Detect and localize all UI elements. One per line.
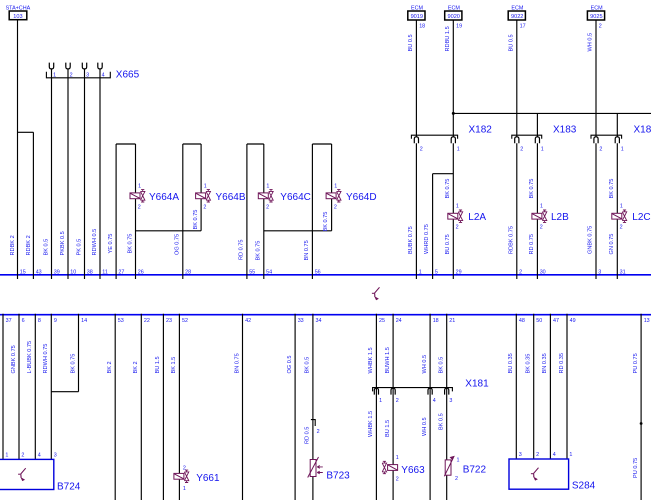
svg-text:39: 39 bbox=[54, 269, 60, 275]
svg-text:18: 18 bbox=[419, 23, 425, 29]
glow plug L2C bbox=[612, 213, 622, 219]
svg-text:WH 0.5: WH 0.5 bbox=[422, 417, 428, 436]
svg-text:9019: 9019 bbox=[411, 14, 423, 20]
svg-text:2: 2 bbox=[317, 429, 320, 435]
svg-text:PK 0.5: PK 0.5 bbox=[76, 239, 82, 256]
wire RDBK 0.75 from X18B pin 2 to frame bbox=[516, 143, 518, 279]
device B724 box bbox=[0, 459, 54, 489]
svg-text:17: 17 bbox=[520, 23, 526, 29]
svg-text:BK 2: BK 2 bbox=[107, 361, 113, 373]
connector X181 terminal pin 2 bbox=[391, 388, 395, 394]
svg-text:1: 1 bbox=[457, 457, 460, 463]
wire WH 0.5 track 18 through X181 bbox=[429, 314, 431, 500]
wire BU 0.5 ECM 9022 to X183 pin 2 bbox=[516, 20, 518, 137]
svg-text:2: 2 bbox=[183, 465, 186, 471]
svg-text:1: 1 bbox=[456, 204, 459, 210]
svg-text:L2A: L2A bbox=[468, 212, 486, 223]
wire to B724 pin 3 bbox=[50, 314, 52, 460]
svg-text:Y663: Y663 bbox=[401, 465, 425, 476]
wire right leg of Y664B bbox=[200, 144, 202, 231]
svg-text:2: 2 bbox=[138, 205, 141, 211]
svg-text:BK 0.75: BK 0.75 bbox=[256, 241, 262, 261]
svg-text:11: 11 bbox=[102, 269, 108, 275]
svg-text:BU 0.35: BU 0.35 bbox=[508, 353, 514, 373]
glow plug L2A bbox=[448, 213, 458, 219]
svg-text:15: 15 bbox=[20, 269, 26, 275]
connector X183 terminal pin 2 bbox=[515, 137, 519, 143]
svg-text:30: 30 bbox=[540, 269, 546, 275]
svg-text:1: 1 bbox=[540, 204, 543, 210]
svg-text:RDBK 2: RDBK 2 bbox=[26, 235, 32, 255]
wire BK 0.5 from X665 bbox=[51, 69, 53, 279]
wire BU 0.5 ECM 9019 to X182 pin 2 bbox=[415, 20, 417, 137]
wire RDBU 1.5 ECM 9020 down to junction bbox=[452, 20, 454, 137]
svg-text:2: 2 bbox=[540, 225, 543, 231]
svg-text:6: 6 bbox=[22, 318, 25, 324]
svg-text:X184: X184 bbox=[634, 124, 651, 135]
svg-text:Y664D: Y664D bbox=[346, 192, 377, 203]
svg-text:14: 14 bbox=[81, 318, 87, 324]
wire supply drop to X184 pin 1 bbox=[616, 113, 618, 136]
svg-text:BU 0.75: BU 0.75 bbox=[445, 234, 451, 254]
svg-text:1: 1 bbox=[266, 183, 269, 189]
svg-text:OG 0.5: OG 0.5 bbox=[287, 355, 293, 373]
svg-text:BK 0.75: BK 0.75 bbox=[323, 212, 329, 232]
svg-text:53: 53 bbox=[118, 318, 124, 324]
device S284 switch glyph bbox=[534, 468, 539, 478]
svg-text:55: 55 bbox=[249, 269, 255, 275]
wire BK 0.75 bus Y664A-Y664B bbox=[136, 230, 202, 232]
wire BU 1.5 track 23 bbox=[162, 314, 164, 500]
svg-text:2: 2 bbox=[396, 477, 399, 483]
svg-text:2: 2 bbox=[456, 225, 459, 231]
svg-text:21: 21 bbox=[449, 318, 455, 324]
connector X181 bracket bbox=[373, 388, 453, 392]
device S284 box bbox=[509, 459, 569, 489]
svg-text:3: 3 bbox=[54, 453, 57, 459]
valve Y663 bbox=[388, 465, 398, 471]
wire right leg of Y664D bbox=[331, 144, 333, 231]
svg-text:24: 24 bbox=[396, 318, 402, 324]
svg-text:BK 0.75: BK 0.75 bbox=[193, 210, 199, 230]
svg-text:WH 0.5: WH 0.5 bbox=[422, 355, 428, 374]
connector X181 terminal pin 3 bbox=[445, 388, 449, 394]
svg-text:1: 1 bbox=[396, 455, 399, 461]
cross-reference switch glyph between frames bbox=[375, 287, 380, 297]
svg-text:2: 2 bbox=[620, 225, 623, 231]
svg-text:RDBK 0.75: RDBK 0.75 bbox=[508, 226, 514, 254]
svg-text:BK 1.5: BK 1.5 bbox=[171, 357, 177, 374]
svg-text:B723: B723 bbox=[326, 470, 350, 481]
wire BK 1.5 track 52 through Y661 bbox=[178, 314, 180, 500]
svg-text:103: 103 bbox=[13, 14, 22, 20]
svg-text:1: 1 bbox=[569, 452, 572, 458]
svg-text:2: 2 bbox=[455, 476, 458, 482]
svg-text:S284: S284 bbox=[572, 481, 596, 492]
svg-text:PKBK 0.5: PKBK 0.5 bbox=[60, 231, 66, 255]
connector X183 terminal pin 1 bbox=[535, 137, 539, 143]
svg-text:RD 0.5: RD 0.5 bbox=[305, 427, 311, 444]
svg-text:X182: X182 bbox=[469, 124, 493, 135]
wire BK 0.75 to glow plug L2B bbox=[536, 143, 538, 279]
svg-text:4: 4 bbox=[38, 453, 41, 459]
connector X184 bracket bbox=[591, 135, 622, 139]
svg-text:13: 13 bbox=[644, 318, 650, 324]
wire BK 0.5 track 21 through X181 to B722 bbox=[446, 314, 448, 500]
svg-text:RDWH 0.5: RDWH 0.5 bbox=[92, 229, 98, 256]
svg-text:33: 33 bbox=[298, 318, 304, 324]
svg-text:RD 0.35: RD 0.35 bbox=[559, 353, 565, 374]
wire PU 0.75 track 13 bbox=[640, 314, 642, 500]
wire to B724 pin 2 bbox=[18, 314, 20, 460]
wire BK 0.75 bus Y664C-Y664D bbox=[264, 230, 332, 232]
wire WH 0.5 ECM 9025 to X184 pin 2 bbox=[595, 20, 597, 137]
svg-text:18: 18 bbox=[433, 318, 439, 324]
svg-text:BK 0.75: BK 0.75 bbox=[609, 179, 615, 199]
inline terminal on B723 wire bbox=[311, 420, 315, 426]
svg-text:PU 0.75: PU 0.75 bbox=[633, 458, 639, 478]
svg-text:1: 1 bbox=[183, 486, 186, 492]
svg-text:10: 10 bbox=[70, 269, 76, 275]
wire right leg of Y664C bbox=[263, 144, 265, 279]
wire RDWH 0.5 from X665 bbox=[99, 69, 101, 279]
svg-text:25: 25 bbox=[379, 318, 385, 324]
connector X182 terminal pin 1 bbox=[451, 137, 455, 143]
svg-text:BUBK 0.75: BUBK 0.75 bbox=[408, 226, 414, 254]
wire RD 0.75 left leg of Y664C bbox=[246, 144, 248, 279]
svg-text:BK 0.75: BK 0.75 bbox=[70, 354, 76, 374]
wire WHRD 0.75 branch from RDBU wire to track 5 bbox=[433, 173, 454, 175]
wire RDBK 2 from fuse 103 to track 15 bbox=[17, 20, 19, 279]
svg-text:5: 5 bbox=[435, 269, 438, 275]
wire YE 0.75 left leg of Y664A bbox=[115, 144, 117, 279]
svg-text:WHRD 0.75: WHRD 0.75 bbox=[424, 224, 430, 254]
connector X665 terminal pin 2 bbox=[66, 63, 70, 69]
svg-text:Y661: Y661 bbox=[196, 473, 220, 484]
svg-text:31: 31 bbox=[620, 269, 626, 275]
svg-text:3: 3 bbox=[598, 269, 601, 275]
junction dot RDBU bus bbox=[452, 112, 455, 115]
svg-text:WHBK 1.5: WHBK 1.5 bbox=[368, 411, 374, 437]
svg-text:37: 37 bbox=[6, 318, 12, 324]
wire BK 0.5 / RD 0.5 track 34 to B723 bbox=[312, 314, 314, 500]
svg-text:BK 0.75: BK 0.75 bbox=[127, 234, 133, 254]
frame border: bottom edge of upper frame bbox=[0, 274, 651, 276]
svg-text:3: 3 bbox=[519, 452, 522, 458]
svg-text:1: 1 bbox=[5, 453, 8, 459]
svg-text:29: 29 bbox=[456, 269, 462, 275]
svg-text:PU 0.75: PU 0.75 bbox=[633, 353, 639, 373]
svg-text:X183: X183 bbox=[553, 124, 577, 135]
svg-text:4: 4 bbox=[433, 398, 436, 404]
wire branch RDBK 2 to track 43 bbox=[18, 131, 34, 133]
svg-text:X181: X181 bbox=[465, 378, 489, 389]
svg-text:1: 1 bbox=[138, 183, 141, 189]
svg-text:BK 0.75: BK 0.75 bbox=[529, 179, 535, 199]
svg-text:BK 0.5: BK 0.5 bbox=[305, 357, 311, 374]
svg-text:1: 1 bbox=[419, 269, 422, 275]
connector X184 terminal pin 1 bbox=[615, 137, 619, 143]
wire GNBK 0.75 from X18C pin 2 to frame bbox=[595, 143, 597, 279]
svg-text:YE 0.75: YE 0.75 bbox=[108, 234, 114, 254]
wire top link for valve Y664C bbox=[247, 143, 264, 145]
svg-text:34: 34 bbox=[316, 318, 322, 324]
wire OG 0.5 track 33 bbox=[294, 314, 296, 500]
svg-text:BU 0.5: BU 0.5 bbox=[508, 34, 514, 51]
svg-text:BK 2: BK 2 bbox=[133, 361, 139, 373]
connector X181 terminal pin 4 bbox=[428, 388, 432, 394]
svg-text:28: 28 bbox=[185, 269, 191, 275]
fuse 103 box bbox=[9, 11, 27, 20]
wire top link for valve Y664D bbox=[312, 143, 331, 145]
wire WHBK 1.5 track 25 through X181 bbox=[375, 314, 377, 500]
svg-text:BN 0.75: BN 0.75 bbox=[234, 353, 240, 373]
connector X665 bracket bbox=[46, 72, 110, 78]
svg-text:2: 2 bbox=[334, 205, 337, 211]
svg-text:23: 23 bbox=[166, 318, 172, 324]
valve Y664C bbox=[258, 193, 268, 199]
svg-text:2: 2 bbox=[396, 398, 399, 404]
svg-text:9: 9 bbox=[54, 318, 57, 324]
svg-text:RDBK 2: RDBK 2 bbox=[10, 235, 16, 255]
svg-text:Y664B: Y664B bbox=[216, 192, 246, 203]
svg-text:2: 2 bbox=[599, 23, 602, 29]
svg-text:9020: 9020 bbox=[447, 14, 459, 20]
svg-text:26: 26 bbox=[138, 269, 144, 275]
valve Y664B bbox=[196, 193, 206, 199]
svg-text:4: 4 bbox=[553, 452, 556, 458]
svg-text:19: 19 bbox=[456, 23, 462, 29]
svg-text:Y664A: Y664A bbox=[149, 192, 179, 203]
svg-text:BUWH 1.5: BUWH 1.5 bbox=[385, 347, 391, 373]
sensor B722 potentiometer bbox=[445, 460, 451, 475]
svg-text:48: 48 bbox=[519, 318, 525, 324]
svg-text:GNBK 0.75: GNBK 0.75 bbox=[11, 345, 17, 373]
junction dot on PU wire bbox=[640, 422, 643, 425]
svg-text:2: 2 bbox=[420, 147, 423, 153]
wire BUBK 0.75 from X18A pin 2 to frame bbox=[415, 143, 417, 279]
valve Y664D bbox=[326, 193, 336, 199]
connector X665 terminal pin 4 bbox=[98, 63, 102, 69]
svg-text:BN 0.75: BN 0.75 bbox=[304, 240, 310, 260]
wire BU 0.35 to S284 pin 3 bbox=[515, 314, 517, 459]
wire PKBK 0.5 from X665 bbox=[67, 69, 69, 279]
wire BK 0.75 to glow plug L2C bbox=[616, 143, 618, 279]
svg-text:2: 2 bbox=[599, 147, 602, 153]
svg-text:2: 2 bbox=[266, 205, 269, 211]
valve Y664A bbox=[130, 193, 140, 199]
svg-text:1: 1 bbox=[457, 147, 460, 153]
svg-text:1: 1 bbox=[541, 147, 544, 153]
svg-text:L2C: L2C bbox=[632, 212, 650, 223]
wire BK 0.75 to glow plug L2A bbox=[452, 143, 454, 279]
wire right leg of Y664A bbox=[135, 144, 137, 279]
wire supply drop to X183 pin 1 bbox=[536, 113, 538, 136]
connector X183 bracket bbox=[512, 135, 542, 139]
svg-text:2: 2 bbox=[520, 147, 523, 153]
connector X182 bracket bbox=[411, 135, 457, 139]
wire BK 2 track 53 bbox=[114, 314, 116, 500]
svg-text:1: 1 bbox=[334, 183, 337, 189]
wire BK 2 track 22 bbox=[140, 314, 142, 500]
frame border: top edge of lower frame bbox=[0, 314, 651, 316]
svg-text:BK 0.5: BK 0.5 bbox=[439, 357, 445, 374]
svg-text:42: 42 bbox=[245, 318, 251, 324]
wire BK 0.75 track 14 joining track 9 bbox=[78, 314, 80, 392]
wire BUWH / BU 1.5 track 24 through X181 to Y663 bbox=[392, 314, 394, 500]
svg-text:L2B: L2B bbox=[551, 212, 569, 223]
svg-text:OG 0.75: OG 0.75 bbox=[175, 234, 181, 255]
glow plug L2B bbox=[532, 213, 542, 219]
svg-text:RDWH 0.75: RDWH 0.75 bbox=[43, 344, 49, 374]
svg-text:WH 0.5: WH 0.5 bbox=[588, 33, 594, 52]
svg-text:38: 38 bbox=[87, 269, 93, 275]
svg-text:22: 22 bbox=[144, 318, 150, 324]
svg-text:52: 52 bbox=[182, 318, 188, 324]
svg-text:56: 56 bbox=[315, 269, 321, 275]
svg-text:BU 1.5: BU 1.5 bbox=[385, 420, 391, 437]
svg-text:BK 0.5: BK 0.5 bbox=[43, 239, 49, 256]
svg-text:49: 49 bbox=[570, 318, 576, 324]
svg-text:2: 2 bbox=[519, 269, 522, 275]
svg-text:9025: 9025 bbox=[590, 14, 602, 20]
wire PK 0.5 from X665 bbox=[84, 69, 86, 279]
svg-text:RD 0.75: RD 0.75 bbox=[0, 353, 1, 374]
svg-text:54: 54 bbox=[266, 269, 272, 275]
wire top link for valve Y664B bbox=[183, 143, 201, 145]
svg-text:2: 2 bbox=[536, 452, 539, 458]
svg-text:RDBU 1.5: RDBU 1.5 bbox=[445, 26, 451, 51]
connector X665 terminal pin 1 bbox=[49, 63, 53, 69]
wire BK 0.35 to S284 pin 2 bbox=[533, 314, 535, 459]
svg-text:GNBK 0.75: GNBK 0.75 bbox=[588, 226, 594, 254]
svg-text:GN 0.75: GN 0.75 bbox=[609, 234, 615, 255]
svg-text:1: 1 bbox=[379, 398, 382, 404]
svg-text:B722: B722 bbox=[463, 465, 487, 476]
connector X181 terminal pin 1 bbox=[374, 388, 378, 394]
valve Y661 bbox=[174, 473, 184, 479]
svg-text:Y664C: Y664C bbox=[280, 192, 311, 203]
svg-text:9022: 9022 bbox=[511, 14, 523, 20]
svg-text:BK 0.35: BK 0.35 bbox=[526, 354, 532, 374]
wire BN 0.75 left leg of Y664D bbox=[311, 144, 313, 279]
wire top link for valve Y664A bbox=[116, 143, 135, 145]
wire RDBU 1.5 supply bus to right edge bbox=[453, 112, 651, 114]
wire to B724 pin 1 bbox=[2, 314, 4, 460]
wire BN 0.35 to S284 pin 4 bbox=[549, 314, 551, 459]
svg-text:WHBK 1.5: WHBK 1.5 bbox=[368, 347, 374, 373]
svg-text:1: 1 bbox=[204, 183, 207, 189]
wire BN 0.75 track 42 bbox=[242, 314, 244, 500]
svg-text:BK 0.5: BK 0.5 bbox=[439, 413, 445, 430]
wire OG 0.75 left leg of Y664B bbox=[182, 144, 184, 279]
svg-text:50: 50 bbox=[536, 318, 542, 324]
svg-text:X665: X665 bbox=[116, 70, 140, 81]
sensor B723 thermistor bbox=[310, 460, 316, 477]
svg-text:3: 3 bbox=[449, 398, 452, 404]
wire RD 0.35 to S284 pin 1 bbox=[566, 314, 568, 459]
device B724 switch glyph bbox=[21, 468, 26, 478]
svg-text:BU 1.5: BU 1.5 bbox=[155, 356, 161, 373]
svg-text:BN 0.35: BN 0.35 bbox=[542, 353, 548, 373]
connector X184 terminal pin 2 bbox=[594, 137, 598, 143]
svg-text:BK 0.75: BK 0.75 bbox=[445, 179, 451, 199]
wire to B724 pin 4 bbox=[34, 314, 36, 460]
svg-text:B724: B724 bbox=[57, 481, 81, 492]
svg-text:2: 2 bbox=[21, 453, 24, 459]
svg-text:L-BUBK 0.75: L-BUBK 0.75 bbox=[27, 341, 33, 374]
svg-text:RD 0.75: RD 0.75 bbox=[239, 239, 245, 260]
connector X665 terminal pin 3 bbox=[82, 63, 86, 69]
svg-text:BU 0.5: BU 0.5 bbox=[408, 34, 414, 51]
svg-text:2: 2 bbox=[203, 205, 206, 211]
svg-text:1: 1 bbox=[620, 204, 623, 210]
svg-text:8: 8 bbox=[38, 318, 41, 324]
connector X182 terminal pin 2 bbox=[414, 137, 418, 143]
svg-text:1: 1 bbox=[621, 147, 624, 153]
svg-text:43: 43 bbox=[36, 269, 42, 275]
svg-text:27: 27 bbox=[118, 269, 124, 275]
svg-text:47: 47 bbox=[553, 318, 559, 324]
svg-text:RD 0.75: RD 0.75 bbox=[529, 234, 535, 255]
